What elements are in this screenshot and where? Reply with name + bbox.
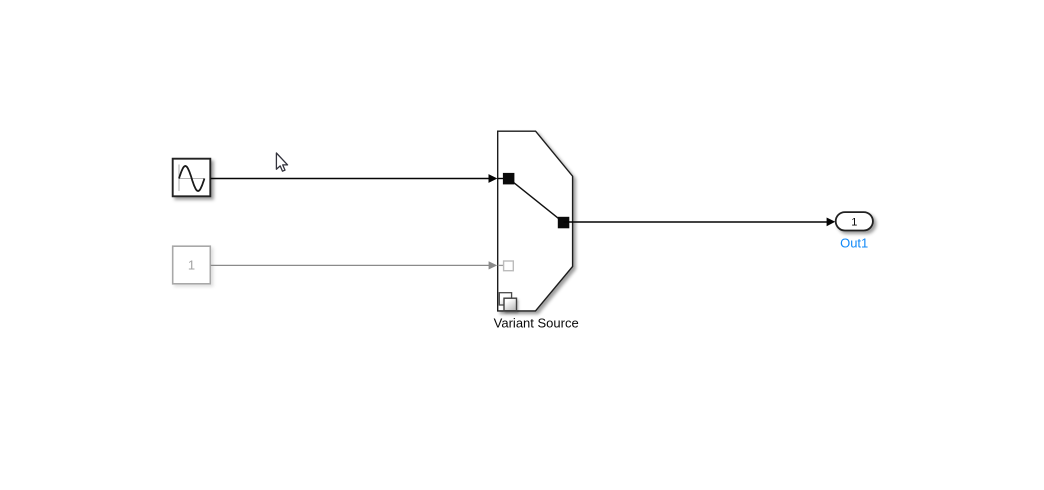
sine icon curve bbox=[179, 166, 204, 191]
port 1 active (black square) bbox=[503, 173, 515, 185]
svg-text:1: 1 bbox=[188, 258, 195, 273]
sine icon axes bbox=[179, 165, 205, 192]
label Out1 bbox=[840, 235, 868, 250]
block Variant Source (body) bbox=[498, 131, 573, 311]
wire stub grey to inactive input port bbox=[498, 264, 504, 266]
wire from Variant Source output to Out1 bbox=[564, 218, 836, 227]
wire from Constant to Variant Source port 2 (inactive grey) bbox=[211, 261, 498, 269]
svg-text:Out1: Out1 bbox=[840, 235, 868, 250]
block Sine Wave bbox=[173, 159, 211, 197]
port 2 inactive (grey open square) bbox=[504, 261, 514, 271]
wire from Sine Wave to Variant Source port 1 bbox=[211, 174, 498, 183]
variant badge back square bbox=[499, 293, 511, 305]
internal selection line from port 1 to output bbox=[509, 179, 564, 223]
block Out1 (outport) bbox=[836, 212, 873, 230]
svg-text:Variant Source: Variant Source bbox=[494, 316, 579, 331]
svg-text:1: 1 bbox=[851, 217, 857, 229]
block Constant (value 1, inactive/faded) bbox=[173, 246, 211, 284]
wire stub to active input port bbox=[498, 178, 504, 180]
mouse cursor bbox=[276, 153, 287, 171]
variant badge front square bbox=[504, 298, 517, 311]
output port (black square) bbox=[558, 217, 570, 229]
label Variant Source bbox=[494, 316, 579, 331]
